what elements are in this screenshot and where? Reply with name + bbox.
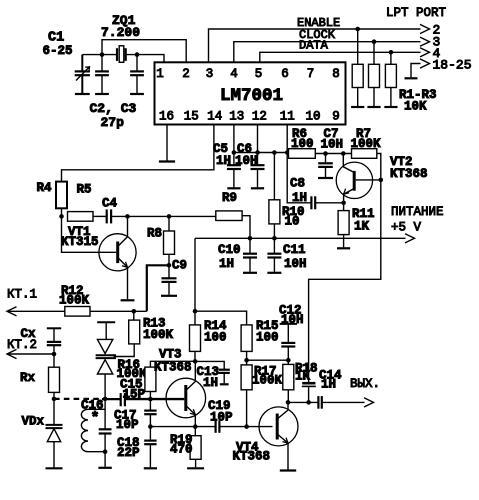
wire pin 12 [257,125,259,165]
wire crystal top loop to pin 2 [102,40,186,63]
node VT2 collector [341,151,346,156]
ground R11 [337,247,350,249]
ground C10 [243,272,257,274]
capacitor C5 [227,164,241,166]
resistor R11 [343,203,345,211]
wire pin 14 to R4 [62,125,214,182]
capacitor C11 [273,238,275,253]
svg-text:5: 5 [255,67,263,81]
svg-text:13: 13 [229,110,244,124]
svg-text:ВЫХ.: ВЫХ. [350,377,380,391]
wire rail to R15 [195,311,247,325]
svg-text:Cx: Cx [21,327,37,341]
capacitor C19 [215,420,217,432]
node R10 tap [272,150,277,155]
resistor R15 [241,325,252,352]
node R18 top [286,358,291,363]
resistor R13 [133,311,135,320]
node pin 12 [255,150,260,155]
node R16 bottom [148,397,153,402]
resistor R9 [216,211,242,221]
capacitor C1 trimmer [81,55,83,72]
ground R3 [384,106,397,108]
svg-text:1H: 1H [321,378,336,392]
svg-text:27p: 27p [101,115,125,130]
resistor R8 [168,216,170,231]
resistor R18 [287,360,289,364]
arrow LPT 18-25 [420,59,430,68]
wire C9 node to KT1 line [147,265,169,311]
node C7 tap [323,151,328,156]
ground C11 [267,272,281,274]
svg-text:18-25: 18-25 [433,58,472,73]
svg-text:100K: 100K [143,328,174,342]
svg-text:10P: 10P [116,418,139,432]
capacitor C18 [144,440,156,442]
node VT3 collector R14 C13 [193,359,198,364]
wire C15 to VT3 base [125,398,184,400]
transistor VT2 KT368 [336,162,372,198]
svg-text:10H: 10H [281,313,304,327]
transistor VT3 KT368 [166,378,206,418]
svg-text:1H: 1H [216,154,231,168]
node tank bottom [103,449,108,454]
svg-text:C11: C11 [283,243,306,257]
svg-text:LPT PORT: LPT PORT [386,6,447,20]
resistor R10 [273,153,275,200]
node Rx dashed [52,397,57,402]
wire pin 13 [233,125,235,165]
capacitor C4 [106,209,108,223]
varicap VDx [46,424,63,426]
wire KT.1 line [7,310,65,312]
resistor R4 [56,182,67,209]
ground pin 16 [159,160,175,162]
node C10 tap [248,236,253,241]
svg-text:22P: 22P [117,446,140,460]
svg-text:100: 100 [256,331,279,345]
terminal bar varicap top [97,321,115,323]
diode VD lower varicap [97,360,112,374]
node R2 tap [372,39,377,44]
ground R2 [367,106,380,108]
capacitor C15 [120,393,122,406]
resistor R7 [352,149,377,159]
ground VDx [46,467,63,469]
svg-text:C2, C3: C2, C3 [90,101,137,116]
svg-text:*: * [91,410,100,427]
wire to C15 [102,398,120,400]
node varicap bottom [103,397,108,402]
svg-text:KT368: KT368 [154,361,192,375]
transistor VT1 KT315 [99,234,136,271]
capacitor C7 [325,154,327,164]
svg-text:100K: 100K [59,294,90,308]
node VT2 emitter C8 R11 [341,201,346,206]
svg-text:R4: R4 [37,181,53,195]
svg-text:10K: 10K [404,99,427,113]
svg-text:1H: 1H [219,257,234,271]
arrow output [364,398,374,407]
svg-text:6-25: 6-25 [43,44,73,58]
node R3 tap [389,50,394,55]
svg-text:KT315: KT315 [61,235,99,249]
node C4 out [125,214,130,219]
svg-text:9: 9 [332,110,340,124]
svg-text:+5 V: +5 V [391,221,422,235]
node R1 tap [355,27,360,32]
ground LPT [405,77,418,79]
svg-text:KT368: KT368 [233,450,271,464]
wire KT.2 line [7,353,54,355]
svg-text:C9: C9 [172,259,187,273]
node Cx Rx [52,352,57,357]
svg-text:100K: 100K [252,374,283,388]
resistor R12 [65,307,90,317]
ground C9 [161,295,177,297]
svg-text:C8: C8 [290,177,305,191]
op-amp U1 LM7001 IC body [155,62,346,124]
svg-text:100: 100 [204,331,227,345]
crystal ZQ1 [116,48,118,61]
svg-text:10: 10 [305,110,320,124]
svg-text:7: 7 [307,67,315,81]
svg-text:КТ.1: КТ.1 [7,288,37,302]
end bar C13 [220,383,229,385]
resistor R14 [194,311,196,325]
svg-text:1H: 1H [203,376,218,390]
arrow LPT 4 [420,48,430,57]
svg-text:2: 2 [182,67,190,81]
resistor R17 [246,360,248,365]
svg-text:4: 4 [230,67,238,81]
ground tank [98,467,111,469]
svg-text:Rx: Rx [20,371,36,385]
arrow +5V [405,234,415,243]
node VT3 emitter R19 [193,424,198,429]
wire LPT ground 18-25 [411,64,421,78]
wire Rx to VDx [53,399,55,424]
arrow LPT 2 [420,24,430,33]
arrow KT.1 [7,307,17,316]
svg-text:12: 12 [252,110,267,124]
svg-text:R9: R9 [222,191,237,205]
resistor R3 [390,52,392,64]
capacitor C14 [317,396,319,409]
node R13 top [132,309,137,314]
ground C7 [318,177,333,179]
ground C18 [144,467,157,469]
node +5 rail corner wire [194,238,196,311]
capacitor C12 [280,323,297,325]
svg-text:1K: 1K [354,220,370,234]
node pin 13 [232,150,237,155]
node R14 top [193,309,198,314]
resistor R6 [289,149,316,159]
svg-text:100: 100 [291,137,314,151]
resistor Rx [53,354,55,367]
capacitor C17 [149,399,151,410]
resistor R5 [68,212,94,222]
node R8 C9 [167,263,172,268]
svg-text:VDx: VDx [22,415,45,429]
ground R1 [351,106,364,108]
svg-text:C4: C4 [102,197,118,211]
resistor R19 [194,427,196,436]
svg-text:KT368: KT368 [390,167,428,181]
svg-text:1H: 1H [292,191,307,205]
arrow KT.2 [7,349,17,358]
resistor R16 [150,361,195,367]
wire crystal bottom line C1 to pin 1 [82,55,164,63]
svg-text:1: 1 [156,67,164,81]
wire pin 11 down to C8 [287,125,311,203]
svg-text:16: 16 [159,110,174,124]
ground C6 [251,187,264,189]
wire R15 R17 C12 line [247,359,289,361]
node R4 R5 junction [59,214,64,219]
diode VD upper varicap [97,339,112,353]
resistor R1 [357,29,359,64]
svg-text:100K: 100K [351,137,382,151]
wire dashed tuning line [54,398,103,400]
capacitor C8 [310,196,312,209]
arrow LPT 3 [420,37,430,46]
svg-text:6: 6 [281,67,289,81]
capacitor C9 [168,265,170,278]
capacitor C2 [101,55,103,72]
svg-text:3: 3 [206,67,214,81]
wire tank vertical [104,399,106,429]
svg-text:11: 11 [280,110,295,124]
node R17 top [244,358,249,363]
wire VT2 base to output node [309,180,381,382]
wire pin 16 [166,125,168,161]
node R8 top [167,214,172,219]
svg-text:8: 8 [332,67,340,81]
capacitor C16 [99,428,112,430]
capacitor Cx [47,327,61,329]
svg-text:1K: 1K [295,370,311,384]
resistor R2 [373,42,375,65]
ground C1 [75,93,90,95]
capacitor C14 upper [302,382,315,385]
ground VT4 emitter [280,469,296,471]
node crystal right [135,52,140,57]
svg-text:DATA: DATA [299,39,329,53]
svg-text:10: 10 [285,215,300,229]
svg-text:C10: C10 [218,243,241,257]
svg-text:10H: 10H [235,154,258,168]
wire DATA pin 5 [260,52,421,62]
capacitor C10 [249,238,251,253]
ground C3 [130,93,144,95]
ground VT1 emitter [121,299,135,301]
wire output line [288,401,318,403]
svg-text:10H: 10H [321,138,344,152]
svg-text:7.200: 7.200 [101,25,140,40]
svg-text:10P: 10P [210,411,233,425]
node pin 11 [285,150,290,155]
wire ENABLE pin 3 [209,29,421,62]
node VT2 base [379,178,384,183]
svg-text:470: 470 [170,443,193,457]
svg-text:15: 15 [184,110,199,124]
wire R13 to varicap [114,344,135,357]
node VT4 collector R18 [286,400,291,405]
node crystal left [100,52,105,57]
wire CLOCK pin 4 [234,42,421,63]
node C17 bottom [148,424,153,429]
svg-text:R5: R5 [77,183,92,197]
node C19 R17 junction [244,424,249,429]
svg-text:ПИТАНИЕ: ПИТАНИЕ [391,205,444,219]
svg-text:R8: R8 [147,227,162,241]
node C11 tap [272,236,277,241]
capacitor C6 [251,164,265,166]
wire +5V supply rail [195,237,406,239]
ground C2 [95,93,109,95]
svg-text:10H: 10H [284,257,307,271]
wire bias line pins 13-11 [234,152,289,154]
ground C5 [227,187,240,189]
ground R19 [187,467,204,469]
transistor VT4 KT368 [259,407,298,446]
svg-text:VT3: VT3 [159,348,182,362]
capacitor C13 [195,361,224,369]
svg-text:LM7001: LM7001 [220,86,283,106]
inductor L [81,409,105,451]
svg-text:14: 14 [207,110,222,124]
wire emitter line [150,426,215,428]
capacitor C3 [136,55,138,72]
node C14a junction [306,400,311,405]
